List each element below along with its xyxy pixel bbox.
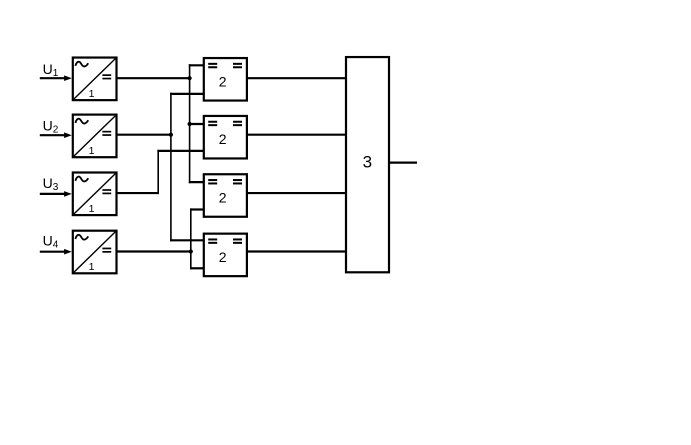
- svg-text:2: 2: [219, 131, 227, 147]
- svg-text:1: 1: [89, 261, 95, 273]
- svg-text:2: 2: [219, 73, 227, 89]
- svg-text:1: 1: [89, 88, 95, 100]
- svg-text:1: 1: [89, 145, 95, 157]
- svg-text:3: 3: [363, 152, 372, 171]
- svg-text:2: 2: [219, 189, 227, 205]
- svg-text:1: 1: [89, 203, 95, 215]
- svg-text:2: 2: [219, 249, 227, 265]
